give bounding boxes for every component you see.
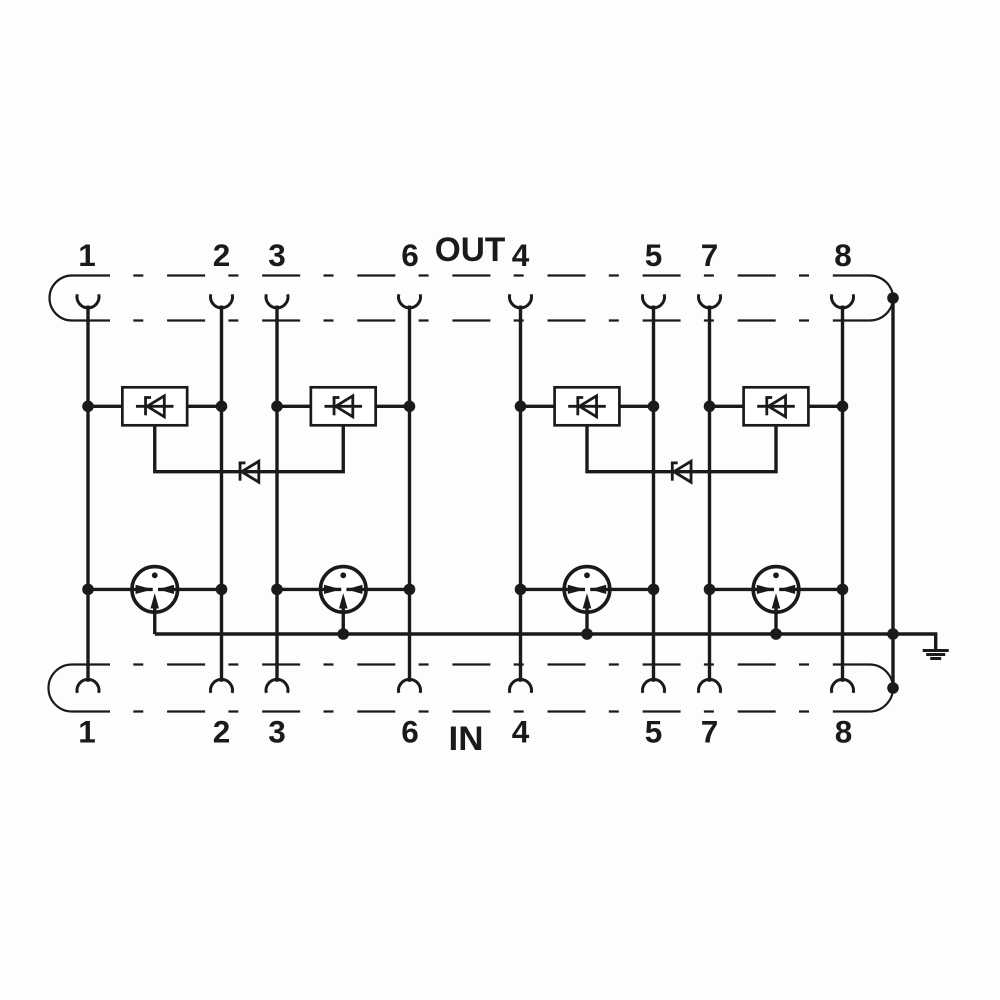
node V2 left junction — [271, 401, 283, 413]
OUT terminal contact 4 — [510, 294, 532, 308]
wire V4 right lead — [808, 405, 842, 408]
node F2 right junction — [404, 584, 416, 596]
gas discharge tube F4 — [753, 567, 799, 634]
gas discharge tube F1 — [132, 567, 178, 634]
wire F1 right lead — [178, 588, 222, 591]
suppressor diode box V3 — [555, 387, 620, 425]
IN terminal contact 2 — [211, 679, 233, 693]
node F3 right junction — [648, 584, 660, 596]
wire V2 right lead — [376, 405, 410, 408]
wire pin 1 vertical — [86, 306, 89, 682]
wire pin 3 vertical — [275, 306, 278, 682]
wire pin 5 vertical — [652, 306, 655, 682]
node V4 right junction — [837, 401, 849, 413]
OUT terminal contact 2 — [210, 294, 232, 308]
OUT terminal contact 7 — [699, 294, 721, 308]
node bus F2 junction — [337, 628, 349, 640]
wire pin 4 vertical — [519, 306, 522, 682]
node bus F3 junction — [581, 628, 593, 640]
node F3 left junction — [515, 584, 527, 596]
ground symbol — [923, 651, 949, 659]
node V1 left junction — [82, 401, 94, 413]
IN connector housing outline (dash-dot) — [48, 665, 893, 712]
OUT terminal contact 8 — [832, 294, 854, 308]
svg-text:4: 4 — [512, 237, 530, 273]
wire shield vertical — [891, 298, 894, 688]
IN terminal contact 5 — [643, 679, 665, 693]
wire pin 6 vertical — [408, 306, 411, 682]
node V1 right junction — [216, 401, 228, 413]
wire pin 7 vertical — [708, 306, 711, 682]
gas discharge tube F2 — [320, 567, 366, 634]
OUT terminal contact 3 — [266, 294, 288, 308]
wire F1 left lead — [88, 588, 132, 591]
wire V3 right lead — [619, 405, 653, 408]
svg-text:3: 3 — [268, 714, 286, 750]
suppressor diode box V1 — [122, 387, 187, 425]
wire F4 right lead — [799, 588, 843, 591]
wire V4 left lead — [710, 405, 744, 408]
svg-text:6: 6 — [401, 237, 419, 273]
IN terminal contact 8 — [832, 679, 854, 693]
wire F2 right lead — [366, 588, 409, 591]
wire link V3-V4 — [587, 425, 776, 471]
svg-text:1: 1 — [78, 714, 96, 750]
svg-text:2: 2 — [213, 714, 231, 750]
OUT connector housing outline (dash-dot) — [50, 276, 894, 321]
svg-text:7: 7 — [701, 714, 719, 750]
svg-text:2: 2 — [213, 237, 231, 273]
diode V5 — [239, 461, 259, 482]
node F4 left junction — [704, 584, 716, 596]
node F4 right junction — [837, 584, 849, 596]
wire F3 right lead — [610, 588, 654, 591]
node F2 left junction — [271, 584, 283, 596]
node V2 right junction — [404, 401, 416, 413]
wire F4 left lead — [710, 588, 754, 591]
IN terminal contact 1 — [77, 679, 99, 693]
wire pin 8 vertical — [841, 306, 844, 682]
node V4 left junction — [704, 401, 716, 413]
OUT terminal contact 6 — [398, 294, 420, 308]
svg-text:5: 5 — [645, 237, 663, 273]
IN terminal contact 6 — [399, 679, 421, 693]
wire V1 right lead — [187, 405, 221, 408]
node shield top — [887, 292, 899, 304]
svg-text:8: 8 — [834, 237, 852, 273]
OUT terminal contact 1 — [77, 294, 99, 308]
svg-text:4: 4 — [512, 714, 530, 750]
IN terminal contact 3 — [266, 679, 288, 693]
wire F3 left lead — [521, 588, 565, 591]
node bus shield junction — [887, 628, 899, 640]
node F1 left junction — [82, 584, 94, 596]
svg-text:IN: IN — [449, 720, 484, 758]
svg-text:7: 7 — [701, 237, 719, 273]
wire V3 left lead — [521, 405, 555, 408]
OUT terminal contact 5 — [643, 294, 665, 308]
wire V2 left lead — [277, 405, 311, 408]
svg-text:3: 3 — [268, 237, 286, 273]
IN terminal contact 7 — [699, 679, 721, 693]
wire pin 2 vertical — [220, 306, 223, 682]
node bus F4 junction — [770, 628, 782, 640]
node shield bottom — [887, 682, 899, 694]
node V3 right junction — [648, 401, 660, 413]
node F1 right junction — [216, 584, 228, 596]
node V3 left junction — [515, 401, 527, 413]
IN terminal contact 4 — [510, 679, 532, 693]
wire ground bus — [155, 634, 936, 650]
suppressor diode box V4 — [744, 387, 809, 425]
svg-text:OUT: OUT — [435, 231, 506, 269]
wire link V1-V2 — [155, 425, 344, 471]
suppressor diode box V2 — [311, 387, 376, 425]
wire V1 left lead — [88, 405, 122, 408]
gas discharge tube F3 — [564, 567, 610, 634]
diode V6 — [671, 461, 691, 482]
wire F2 left lead — [277, 588, 320, 591]
svg-text:5: 5 — [645, 714, 663, 750]
svg-text:8: 8 — [835, 714, 853, 750]
svg-text:6: 6 — [401, 714, 419, 750]
svg-text:1: 1 — [78, 237, 96, 273]
